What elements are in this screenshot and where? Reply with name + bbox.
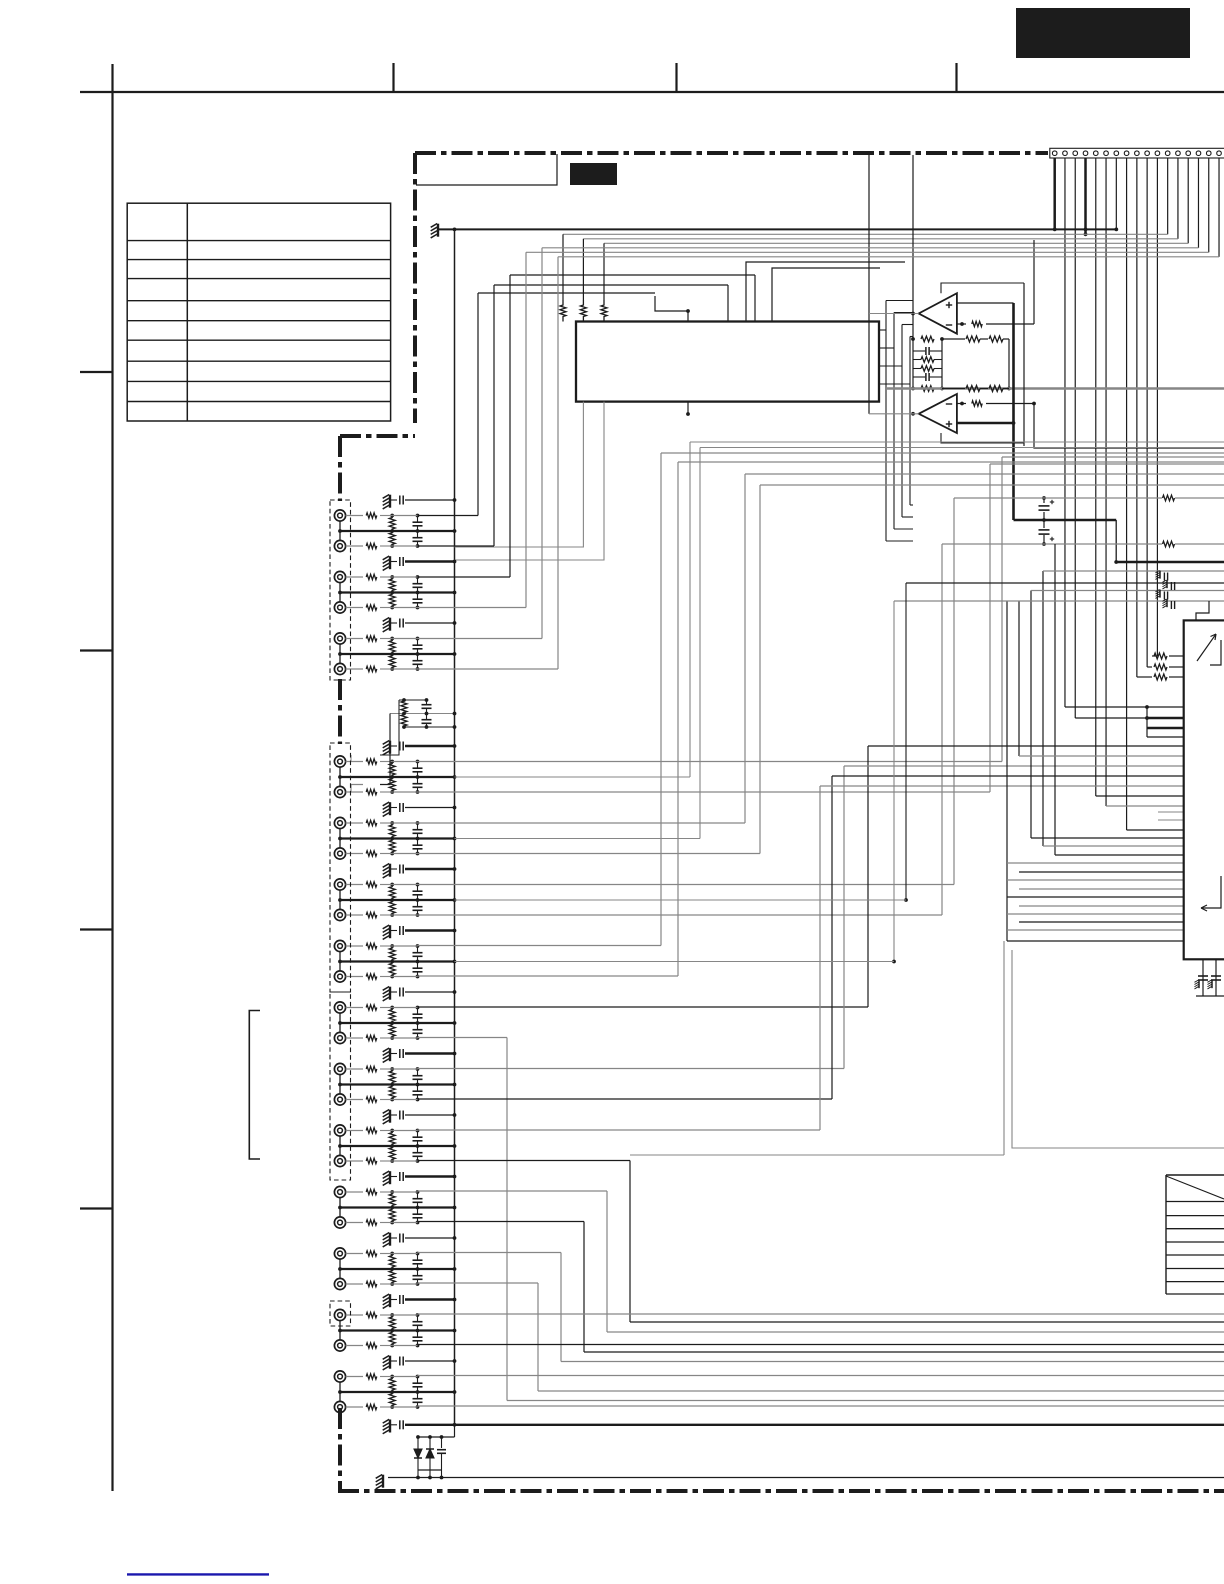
- wire row y234 to pin12: [563, 233, 1168, 235]
- resistor R1R input: [346, 545, 363, 547]
- wire J2R signal: [418, 607, 527, 609]
- capacitor C14a shunt: [417, 1377, 419, 1383]
- wire J2L to R net: [380, 576, 392, 578]
- wire mid6 extension: [455, 899, 907, 901]
- wire J5R signal: [418, 853, 761, 855]
- resistor R13 (above IC1): [601, 300, 607, 322]
- resistor R9L input: [346, 1068, 363, 1070]
- RCA jack J4 L: [334, 756, 345, 767]
- wire U1 top rail to x1024: [941, 283, 1024, 293]
- board boundary left seg3: [338, 1408, 342, 1491]
- feedback network rail right: [941, 339, 943, 389]
- wire mid common J5: [340, 837, 455, 839]
- resistor R9b shunt: [389, 1085, 395, 1100]
- wire jack link J11: [339, 1198, 341, 1217]
- wire phono J4L riser: [350, 755, 352, 762]
- capacitor C1a shunt: [417, 516, 419, 522]
- wire J11R signal: [418, 1221, 585, 1223]
- capacitor C12g decoupling: [390, 1237, 397, 1239]
- wire J10R to R net: [380, 1160, 392, 1162]
- capacitor C9a shunt: [417, 1069, 419, 1075]
- RCA jack J5 R: [334, 848, 345, 859]
- wire phono net mid: [390, 713, 455, 715]
- page frame horizontal rule: [80, 91, 1224, 93]
- wire J3R signal: [418, 668, 559, 670]
- wire J1R to R net: [380, 545, 392, 547]
- wire J8R signal: [418, 1037, 508, 1039]
- wire J2R to R net: [380, 607, 392, 609]
- RCA jack J10 R: [334, 1155, 345, 1166]
- ground symbol G2: [389, 556, 391, 569]
- wire IC2 ladder row y930: [1007, 929, 1184, 931]
- resistor R13L input: [346, 1314, 363, 1316]
- capacitor C32 electrolytic: [1043, 520, 1045, 528]
- resistor R6L input: [346, 884, 363, 886]
- wire J13R signal: [418, 1344, 1224, 1346]
- connector CN pin 11 circle: [1155, 151, 1160, 156]
- bus wire y388 (thick grey): [885, 387, 1224, 389]
- wire CN pin13 down: [1177, 158, 1179, 239]
- resistor R8a shunt: [389, 1008, 395, 1024]
- ground symbol G8: [389, 987, 391, 1000]
- connector CN pin 8 circle: [1124, 151, 1129, 156]
- board boundary step: [340, 434, 415, 438]
- wire mid4 extension: [455, 776, 691, 778]
- wire IC2 ladder row y914: [1007, 913, 1184, 915]
- capacitor C3g decoupling: [390, 622, 397, 624]
- wire ground row 10: [405, 1114, 455, 1116]
- wire mid7 extension: [455, 961, 895, 963]
- capacitor C12b shunt: [417, 1269, 419, 1275]
- capacitor C54 cluster: [1170, 601, 1172, 609]
- diode rail bottom: [418, 1469, 442, 1471]
- capacitor C11b shunt: [417, 1208, 419, 1214]
- wire J3L signal: [418, 638, 543, 640]
- board boundary left upper: [413, 153, 417, 423]
- RCA jack J13 L: [334, 1309, 345, 1320]
- IC2 wiper arrow bottom: [1201, 876, 1221, 908]
- wire row y855 to IC2: [1055, 854, 1184, 856]
- wire J5L signal: [418, 822, 746, 824]
- capacitor C31 electrolytic: [1043, 498, 1045, 503]
- RCA jack J1 R: [334, 540, 345, 551]
- IC2 bottom cap stub 1: [1202, 959, 1204, 996]
- RCA jack J12 R: [334, 1278, 345, 1289]
- resistor R1L input: [346, 515, 363, 517]
- board boundary left seg2: [338, 679, 342, 744]
- wire IC1 top pin x746 loop: [746, 262, 905, 322]
- RCA jack J8 R: [334, 1032, 345, 1043]
- resistor R3L input: [346, 638, 363, 640]
- resistor R13R input: [346, 1345, 363, 1347]
- pin table diagonal: [1166, 1176, 1224, 1199]
- RCA jack J10 L: [334, 1125, 345, 1136]
- wire U2 -input with resistor R26: [957, 403, 966, 405]
- input group box D (single jack): [330, 1301, 351, 1326]
- wire J12R to R net: [380, 1283, 392, 1285]
- capacitor C71: [441, 1437, 443, 1448]
- wire ground row 11: [405, 1175, 455, 1178]
- wire IC2 ladder row y889: [1019, 888, 1184, 890]
- frame tick top x956: [955, 63, 957, 92]
- wire jack link J2: [339, 583, 341, 602]
- connector CN pin 6 circle: [1104, 151, 1109, 156]
- wire CN pin17 down: [1218, 158, 1220, 257]
- ground symbol G14: [389, 1356, 391, 1369]
- wire U1 output left (grey): [869, 313, 919, 315]
- resistor R14a shunt: [389, 1377, 395, 1393]
- wire J12L to R net: [380, 1253, 392, 1255]
- RCA jack J11 L: [334, 1186, 345, 1197]
- wire jack link J5: [339, 829, 341, 848]
- wire thick vertical x1013: [1012, 303, 1015, 520]
- wire CN pin10 down: [1146, 158, 1148, 667]
- wire row y756 to IC2: [1019, 755, 1184, 757]
- ground symbol G11: [389, 1171, 391, 1184]
- wire U2 bottom rail: [941, 433, 1024, 443]
- wire J10L to R net: [380, 1130, 392, 1132]
- IC2 top notch wire: [1196, 601, 1209, 620]
- capacitor C4p2: [426, 714, 428, 720]
- wire vres3 up: [603, 243, 605, 300]
- RCA jack J3 R: [334, 663, 345, 674]
- connector CN pin 13 circle: [1176, 151, 1181, 156]
- capacitor C14b shunt: [417, 1392, 419, 1398]
- RCA jack J7 R: [334, 971, 345, 982]
- RCA jack J7 L: [334, 940, 345, 951]
- RCA jack J3 L: [334, 633, 345, 644]
- wire J11L to R net: [380, 1191, 392, 1193]
- ground symbol G13: [389, 1294, 391, 1307]
- wire drop bundle v5: [1054, 544, 1056, 855]
- wire J12L signal: [418, 1252, 562, 1254]
- resistor R4p2: [401, 714, 407, 728]
- wire J1L signal: [418, 515, 479, 517]
- wire ground bus vertical x454: [454, 229, 456, 1424]
- wire jack link J1: [339, 521, 341, 540]
- wire J4R to R net: [380, 791, 392, 793]
- wire ground row 3: [405, 622, 455, 624]
- wire vres1 up: [562, 234, 564, 300]
- bus row y447 grey (from mid5): [700, 447, 1224, 449]
- capacitor C53 cluster: [1163, 592, 1165, 600]
- capacitor C4g decoupling: [390, 745, 397, 747]
- connector CN pin 17 circle: [1217, 151, 1222, 156]
- capacitor C5b shunt: [417, 839, 419, 845]
- wire J13L signal: [418, 1313, 1224, 1315]
- wire drop bundle v1: [1006, 601, 1008, 941]
- wire CN pin6 down: [1105, 158, 1107, 806]
- wire ground row 2: [405, 560, 455, 563]
- frame tick left y650: [80, 649, 113, 651]
- resistor R43 to IC2: [1152, 655, 1157, 657]
- IC2 rail cluster: [1146, 707, 1148, 737]
- wire ground row 14: [405, 1360, 455, 1362]
- capacitor C51 cluster: [1163, 573, 1165, 581]
- wire CN pin3 down: [1074, 158, 1076, 718]
- wire ground row 7: [405, 929, 455, 932]
- wire ground row 15 thick to edge: [405, 1424, 1224, 1426]
- wire drop bundle v2: [1018, 601, 1020, 756]
- ground symbol G12: [389, 1233, 391, 1246]
- wire mid common J9: [340, 1083, 455, 1085]
- capacitor C9b shunt: [417, 1085, 419, 1091]
- wire row y846 to IC2: [1043, 845, 1184, 847]
- wire mid common J7: [340, 960, 455, 962]
- wire J10L signal: [418, 1129, 821, 1131]
- resistor R3a shunt: [389, 639, 395, 655]
- wire IC2 pin y707: [1147, 706, 1184, 708]
- ground symbol G5: [389, 802, 391, 815]
- wire IC2 ladder row y897: [1007, 896, 1184, 898]
- wire IC2 ladder row y906: [1019, 905, 1184, 907]
- wire IC1 right wrap 3: [879, 365, 902, 367]
- wire vertical x1024: [1023, 283, 1025, 446]
- wire CN pin2 down: [1064, 158, 1066, 707]
- wire J9R signal: [418, 1098, 833, 1100]
- board boundary top: [415, 151, 1048, 155]
- capacitor C8b shunt: [417, 1023, 419, 1029]
- wire U2 output left (grey): [869, 413, 919, 415]
- wire J14R signal: [418, 1405, 1224, 1407]
- resistor R7b shunt: [389, 962, 395, 977]
- board boundary bottom: [338, 1489, 1224, 1493]
- capacitor C14g decoupling: [390, 1360, 397, 1362]
- connector CN pin 10 circle: [1145, 151, 1150, 156]
- resistor R7R input: [346, 976, 363, 978]
- op-amp U2 output node: [911, 412, 915, 416]
- capacitor C4a shunt: [417, 762, 419, 768]
- frame tick top x393: [392, 63, 394, 92]
- resistor R8L input: [346, 1007, 363, 1009]
- wire CN pin8 down: [1126, 158, 1128, 830]
- wire thick y520: [1014, 519, 1117, 522]
- wire mid common J13: [340, 1329, 455, 1331]
- parts table: [127, 203, 390, 421]
- wire jack link J9: [339, 1075, 341, 1094]
- IC2 bottom cap stub 2: [1215, 959, 1217, 996]
- ground symbol G1: [389, 495, 391, 508]
- wire J7L signal: [418, 945, 662, 947]
- capacitor C10g decoupling: [390, 1114, 397, 1116]
- connector CN housing: [1050, 148, 1224, 158]
- wire IC2 ladder row y941: [1007, 940, 1184, 942]
- wire drop bundle v3: [1030, 591, 1032, 839]
- wire J13L to R net: [380, 1314, 392, 1316]
- diode D2: [429, 1437, 431, 1449]
- capacitor C6b shunt: [417, 900, 419, 906]
- resistor R12 (above IC1): [580, 300, 586, 322]
- RCA jack J5 L: [334, 817, 345, 828]
- resistor R5L input: [346, 822, 363, 824]
- RCA jack J9 R: [334, 1094, 345, 1105]
- wire jack link J3: [339, 644, 341, 663]
- wire mid common J10: [340, 1145, 455, 1147]
- input group box C: [330, 992, 351, 1180]
- resistor R2R input: [346, 607, 363, 609]
- wire phono net top: [399, 699, 427, 701]
- ground symbol main: [437, 224, 439, 237]
- wire IC2 thick pin y718: [1147, 717, 1184, 720]
- op-amp U2 (bottom): [919, 394, 957, 433]
- board label outline: [416, 154, 557, 185]
- capacitor C22 feedback: [925, 373, 927, 381]
- wire J4L signal: [418, 761, 1003, 763]
- wire jack link J14: [339, 1382, 341, 1401]
- wire CN pin12 down: [1167, 158, 1169, 234]
- wire IC2 ladder row y872: [1019, 871, 1184, 873]
- IC2 wiper arrow top: [1197, 634, 1216, 661]
- resistor R10L input: [346, 1130, 363, 1132]
- resistor R10b shunt: [389, 1146, 395, 1161]
- wire row y571: [1043, 570, 1224, 572]
- wire J12R signal: [418, 1282, 539, 1284]
- wire IC1 top pin elbow: [655, 296, 688, 311]
- wire IC2 pin y737: [1147, 736, 1184, 738]
- wire ground row 9: [405, 1052, 455, 1055]
- connector CN pin 9 circle: [1135, 151, 1140, 156]
- resistor R14L input: [346, 1376, 363, 1378]
- connector CN pin 1 circle: [1052, 151, 1057, 156]
- wire J11R to R net: [380, 1222, 392, 1224]
- wire vertical x913 from boundary: [912, 155, 914, 314]
- wire IC1 right wrap 1: [879, 329, 886, 331]
- wire ground row 4: [405, 745, 455, 748]
- wire phono net bottom: [404, 726, 455, 728]
- wire x906 drop to mid6: [905, 583, 907, 900]
- wire mid common J14: [340, 1391, 455, 1393]
- capacitor C4p1: [426, 700, 428, 704]
- diode D1: [417, 1437, 419, 1449]
- resistor R9a shunt: [389, 1069, 395, 1085]
- connector CN pin 15 circle: [1196, 151, 1201, 156]
- RCA jack J9 L: [334, 1063, 345, 1074]
- connector CN pin 14 circle: [1186, 151, 1191, 156]
- RCA jack J2 L: [334, 571, 345, 582]
- resistor R42 to IC2: [1147, 666, 1152, 668]
- resistor R12L input: [346, 1253, 363, 1255]
- wire mid common J6: [340, 899, 455, 901]
- frame tick left y372: [80, 371, 113, 373]
- connector CN pin 4 circle: [1083, 151, 1088, 156]
- capacitor C6g decoupling: [390, 868, 397, 870]
- resistor R11L input: [346, 1191, 363, 1193]
- resistor R2a shunt: [389, 577, 395, 593]
- resistor R10a shunt: [389, 1131, 395, 1147]
- wire IC1 bottom pin x583 to bus: [455, 402, 584, 547]
- frame tick left y930: [80, 928, 113, 930]
- capacitor C13a shunt: [417, 1315, 419, 1321]
- capacitor C4b shunt: [417, 777, 419, 783]
- resistor R5b shunt: [389, 839, 395, 854]
- RCA jack J8 L: [334, 1002, 345, 1013]
- wire J1R signal: [418, 545, 495, 547]
- wire J4R signal: [418, 791, 991, 793]
- wire IC1 bottom pin x604 to bus: [455, 402, 605, 560]
- wire J9L signal: [418, 1068, 845, 1070]
- wire J7R signal: [418, 975, 679, 977]
- capacitor C7b shunt: [417, 962, 419, 968]
- ground symbol G4: [389, 741, 391, 754]
- resistor R8b shunt: [389, 1023, 395, 1038]
- wire feedback elbow x1009: [1008, 339, 1010, 389]
- wire IC2 ladder row y863: [1007, 862, 1184, 864]
- capacitor C7g decoupling: [390, 930, 397, 932]
- resistor R25 feedback: [921, 386, 934, 392]
- wire U2 -input elbow to right: [1034, 404, 1224, 449]
- wire feedback row y388: [942, 388, 965, 390]
- connector CN pin 12 circle: [1165, 151, 1170, 156]
- resistor R13a shunt: [389, 1315, 395, 1331]
- bus row y442 grey (from mid4): [690, 441, 1224, 443]
- capacitor C8a shunt: [417, 1008, 419, 1014]
- resistor R3b shunt: [389, 654, 395, 669]
- ground symbol G6: [389, 864, 391, 877]
- wire J5L to R net: [380, 822, 392, 824]
- wire x894 drop to mid7: [893, 601, 895, 962]
- connector CN pin 16 circle: [1206, 151, 1211, 156]
- board boundary left seg1: [338, 436, 342, 501]
- wire row y601: [894, 600, 1224, 602]
- wire CN pin4 to ground bus: [1084, 158, 1087, 234]
- resistor R14R input: [346, 1406, 363, 1408]
- wire U1 +input: [957, 302, 1014, 304]
- RCA jack J4 R: [334, 786, 345, 797]
- RCA jack J6 L: [334, 879, 345, 890]
- resistor R7L input: [346, 945, 363, 947]
- capacitor C11g decoupling: [390, 1176, 397, 1178]
- wire J8L to R net: [380, 1007, 392, 1009]
- wire corner x1004: [1003, 941, 1005, 1155]
- wire J2L signal: [418, 576, 511, 578]
- wire row y1155: [630, 1154, 1004, 1156]
- wire drop bundle v4: [1042, 571, 1044, 846]
- wire CN pin1 to ground bus: [1053, 158, 1056, 229]
- resistor R4a shunt: [389, 762, 395, 778]
- capacitor C9g decoupling: [390, 1053, 397, 1055]
- wire row y238 to pin13: [583, 238, 1178, 240]
- resistor R2L input: [346, 576, 363, 578]
- capacitor C21 feedback: [925, 347, 927, 355]
- wire J6L to R net: [380, 884, 392, 886]
- wire J6R to R net: [380, 914, 392, 916]
- wire CN pin16 down: [1208, 158, 1210, 252]
- wire jack link J4: [339, 767, 341, 786]
- capacitor C62 electrolytic: [1211, 975, 1221, 977]
- wire J3L to R net: [380, 638, 392, 640]
- junction ground bus x454: [453, 228, 457, 232]
- capacitor C2b shunt: [417, 593, 419, 599]
- resistor R4L input: [346, 761, 363, 763]
- wire U1 -input feedback vertical x1034: [1033, 240, 1035, 324]
- resistor R6b shunt: [389, 900, 395, 915]
- resistor R10R input: [346, 1160, 363, 1162]
- input group box A: [330, 500, 351, 680]
- input group box B: [330, 743, 351, 992]
- resistor R8R input: [346, 1037, 363, 1039]
- capacitor C13b shunt: [417, 1331, 419, 1337]
- capacitor C3b shunt: [417, 654, 419, 660]
- resistor R7a shunt: [389, 946, 395, 962]
- wire ground row 12: [405, 1237, 455, 1239]
- capacitor C5a shunt: [417, 823, 419, 829]
- wire J6L signal: [418, 884, 955, 886]
- wire IC2 thick pin y728: [1147, 727, 1184, 730]
- wire ground row 6: [405, 868, 455, 871]
- wire ground row 8: [405, 991, 455, 993]
- capacitor C10a shunt: [417, 1131, 419, 1137]
- resistor R4R input: [346, 791, 363, 793]
